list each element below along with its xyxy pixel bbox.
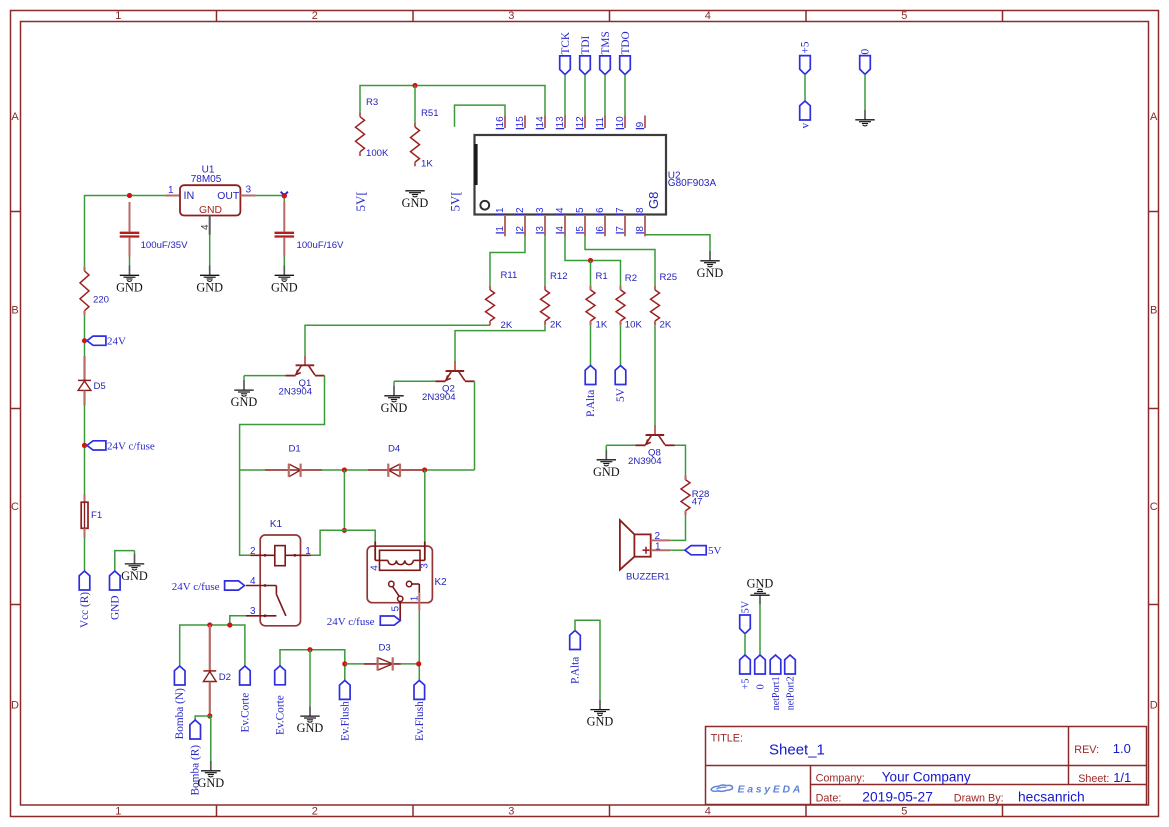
svg-text:netPort1: netPort1 [771, 676, 782, 710]
pin 8 of U2 (bottom) [635, 207, 646, 236]
junction dot with cross at U1 out [281, 192, 288, 199]
ground symbol floating at R51 [402, 191, 429, 210]
junction dot D2 top [207, 622, 212, 627]
svg-text:5: 5 [901, 10, 907, 22]
svg-text:1: 1 [115, 806, 121, 818]
svg-text:2N3904: 2N3904 [628, 456, 662, 467]
svg-text:8: 8 [635, 207, 646, 213]
pin 4 of U1 (gray) [200, 216, 211, 235]
wire pin5 to R25 [585, 236, 655, 286]
wire R28 to buzzer pin2 [670, 515, 685, 540]
pin 2 of U2 (bottom) [515, 207, 526, 236]
flag TDI [580, 35, 592, 74]
pin 1 of U2 (bottom) [495, 207, 506, 236]
svg-text:TCK: TCK [560, 31, 572, 54]
ground symbol netport (flipped) [747, 576, 774, 604]
svg-text:1: 1 [168, 185, 174, 196]
svg-text:GND: GND [697, 266, 724, 280]
wire R51 drop [414, 86, 416, 124]
svg-text:TMS: TMS [600, 31, 612, 54]
flag 5V netport [740, 600, 752, 633]
flag +5 bottom [740, 655, 752, 689]
svg-text:TITLE:: TITLE: [711, 733, 743, 745]
flag netPort2 [785, 655, 797, 710]
svg-text:GND: GND [271, 280, 298, 294]
svg-text:D1: D1 [289, 444, 301, 455]
svg-text:2K: 2K [550, 320, 562, 331]
svg-text:24V c/fuse: 24V c/fuse [172, 581, 220, 593]
svg-text:9: 9 [635, 121, 646, 127]
wire K1 pin2 drop [240, 470, 251, 555]
flag Ev.Flush 1 [339, 680, 351, 741]
svg-text:REV:: REV: [1074, 744, 1099, 756]
svg-text:7: 7 [615, 226, 626, 232]
ground symbol Q2 [381, 381, 408, 415]
svg-text:2K: 2K [501, 320, 513, 331]
title block [706, 727, 1147, 805]
svg-text:GND: GND [231, 395, 258, 409]
transistor Q8 2N3904 [628, 425, 675, 467]
junction dot D3 right [416, 661, 421, 666]
svg-text:+5: +5 [741, 679, 752, 690]
svg-text:GND: GND [116, 280, 143, 294]
svg-text:8: 8 [635, 226, 646, 232]
svg-text:GND: GND [381, 401, 408, 415]
svg-text:A: A [11, 111, 19, 123]
svg-text:A: A [1150, 111, 1158, 123]
flag P.Alta [585, 366, 597, 418]
svg-text:4: 4 [370, 565, 381, 571]
svg-text:F1: F1 [91, 510, 102, 521]
wire TDI to pin 12 [584, 75, 586, 116]
wire Ev bus [280, 650, 345, 681]
svg-text:netPort2: netPort2 [786, 676, 797, 710]
buzzer BUZZER1 [620, 520, 670, 582]
wire GND flag link [115, 551, 135, 571]
pin 10 of U2 (top) [615, 116, 626, 129]
pin 4 of U2 (bottom) [555, 207, 566, 236]
svg-text:3: 3 [508, 806, 514, 818]
svg-text:Your Company: Your Company [882, 770, 971, 785]
svg-text:1: 1 [495, 207, 506, 213]
wire pin3 to R12 [544, 236, 546, 286]
pin 14 of U2 (top) [535, 116, 546, 129]
svg-text:Ev.Flush: Ev.Flush [414, 701, 426, 741]
svg-text:1: 1 [115, 10, 121, 22]
svg-text:0: 0 [860, 49, 872, 55]
pin 6 of U2 (bottom) [595, 207, 606, 236]
svg-text:D3: D3 [379, 643, 391, 654]
svg-text:5V: 5V [741, 600, 752, 613]
pin 5 of U2 (bottom) [575, 207, 586, 236]
resistor R3 [356, 97, 390, 159]
svg-text:100K: 100K [366, 148, 389, 159]
svg-text:R3: R3 [366, 97, 378, 108]
voltage probe 5V at R3 [353, 191, 368, 211]
svg-text:GND: GND [402, 196, 429, 210]
flag 24V c/fuse at K1 pin4 [172, 581, 245, 593]
svg-text:Drawn By:: Drawn By: [954, 792, 1004, 804]
wire Q1 emitter to GND [244, 375, 285, 377]
svg-text:GND: GND [196, 280, 223, 294]
svg-text:0: 0 [756, 684, 767, 689]
svg-text:EasyEDA: EasyEDA [738, 784, 804, 796]
wire pin2 to R11 [490, 236, 525, 286]
ground symbol Q8 [593, 445, 620, 479]
wire R1 drop [590, 261, 592, 286]
svg-text:4: 4 [705, 10, 711, 22]
ground symbol under U1 [196, 266, 223, 295]
svg-text:2019-05-27: 2019-05-27 [862, 789, 933, 804]
voltage probe 5V at hook [448, 191, 463, 211]
flag 0 bottom [755, 655, 767, 689]
svg-text:Vcc (R): Vcc (R) [79, 592, 91, 628]
svg-text:C: C [1150, 501, 1158, 513]
svg-text:5V[: 5V[ [353, 191, 368, 211]
wire Ev GND drop [309, 650, 311, 707]
svg-text:10: 10 [615, 116, 626, 128]
svg-text:Company:: Company: [816, 773, 865, 785]
svg-text:GND: GND [109, 596, 121, 620]
pin 13 of U2 (top) [555, 116, 566, 129]
svg-text:4: 4 [555, 226, 566, 232]
transistor Q2 2N3904 [422, 361, 475, 403]
regulator U1 78M05 [166, 165, 256, 216]
wire TMS to pin 11 [604, 75, 606, 116]
svg-text:Ev.Corte: Ev.Corte [275, 695, 287, 735]
svg-text:6: 6 [595, 207, 606, 213]
wire TDO to pin 10 [624, 75, 626, 116]
svg-text:Date:: Date: [816, 792, 842, 804]
junction dot D2 bottom [207, 713, 212, 718]
wire Q8 collector to R28 [675, 445, 686, 475]
svg-text:2: 2 [312, 806, 318, 818]
svg-text:11: 11 [595, 117, 606, 128]
wire U1 output to C2 [256, 196, 284, 203]
wire hook pin16 [455, 105, 506, 127]
wire 0 column [864, 74, 866, 110]
diode D2 [203, 625, 231, 716]
junction dot K1 pin3 drop [227, 622, 232, 627]
svg-text:5V: 5V [615, 387, 627, 402]
svg-text:13: 13 [555, 116, 566, 128]
svg-text:GND: GND [197, 776, 224, 790]
flag Ev.Flush 2 [414, 680, 426, 741]
wire buzzer pin1 to 5V flag [670, 549, 685, 551]
svg-text:C: C [11, 501, 19, 513]
flag Ev.Corte 2 [275, 666, 287, 735]
diode D4 [368, 444, 423, 477]
svg-text:3: 3 [246, 185, 252, 196]
diode D1 [265, 444, 322, 477]
resistor R2 [616, 273, 642, 331]
capacitor C1 100uF/35V [120, 202, 188, 257]
svg-text:IN: IN [184, 190, 195, 202]
wire R25 to Q8 base [654, 325, 656, 425]
flag Bomba (N) [174, 666, 186, 739]
flag +5 (top right) [800, 41, 812, 74]
svg-text:BUZZER1: BUZZER1 [626, 572, 670, 583]
svg-text:D4: D4 [388, 444, 401, 455]
junction dot at C1 top [127, 193, 132, 198]
svg-text:R11: R11 [501, 270, 518, 281]
svg-text:220: 220 [93, 295, 109, 306]
svg-text:K2: K2 [435, 577, 448, 588]
wire Q8 emitter to GND [606, 444, 635, 446]
flag TDO [620, 31, 632, 74]
svg-text:hecsanrich: hecsanrich [1018, 789, 1085, 804]
wire K1 pin3 out [230, 616, 246, 625]
svg-text:5: 5 [575, 226, 586, 232]
wire P.Alta to GND [575, 620, 600, 700]
wire 220 to 24V flag [84, 315, 86, 356]
resistor 220 [80, 267, 109, 315]
svg-text:1: 1 [305, 546, 311, 557]
svg-text:K1: K1 [270, 519, 283, 530]
wire 0 to GND netport [759, 605, 761, 655]
capacitor C2 100uF/16V [275, 202, 345, 257]
flag TCK [560, 31, 572, 75]
resistor R11 [486, 270, 518, 331]
svg-text:1K: 1K [421, 159, 433, 170]
junction dot D-line mid [342, 467, 347, 472]
junction dot relay bus [342, 528, 347, 533]
junction dot R1 top [588, 258, 593, 263]
ground symbol 0 column [855, 110, 874, 126]
svg-text:TDI: TDI [580, 35, 592, 54]
svg-text:4: 4 [200, 224, 211, 230]
ground symbol left [121, 551, 148, 583]
svg-text:12: 12 [575, 116, 586, 128]
wire Q1 collector down [240, 376, 325, 470]
ground symbol Ev [297, 706, 324, 735]
flag 0 (top right) [860, 49, 872, 75]
fuse F1 [81, 495, 102, 539]
svg-text:14: 14 [535, 116, 546, 128]
svg-text:P.Alta: P.Alta [570, 657, 582, 684]
ground symbol Bomba [197, 761, 224, 790]
junction dot Ev GND [307, 647, 312, 652]
flag Vcc (R) [79, 571, 91, 628]
relay K1 [246, 519, 311, 626]
EasyEDA logo [711, 784, 803, 796]
svg-text:Ev.Flush: Ev.Flush [339, 701, 351, 741]
svg-text:TDO: TDO [620, 31, 632, 54]
wire 24V input rail top [85, 196, 167, 267]
svg-text:Ev.Corte: Ev.Corte [240, 693, 252, 733]
wire bottom bus Bomba [180, 625, 245, 666]
svg-text:10K: 10K [625, 320, 643, 331]
resistor R25 [651, 272, 678, 331]
svg-text:GND: GND [121, 569, 148, 583]
junction dot D-line right [422, 467, 427, 472]
svg-text:5: 5 [391, 606, 402, 612]
wire R12 to Q2 base [455, 325, 545, 361]
wire D4 to Q2 collector [423, 469, 475, 471]
svg-text:4: 4 [555, 207, 566, 213]
svg-text:GND: GND [587, 715, 614, 729]
wire U1 pin4 to GND [209, 235, 211, 266]
svg-text:GND: GND [593, 465, 620, 479]
svg-text:1: 1 [495, 226, 506, 232]
svg-text:16: 16 [495, 116, 506, 128]
svg-text:R51: R51 [421, 108, 439, 119]
svg-text:2N3904: 2N3904 [422, 392, 456, 403]
svg-text:GND: GND [199, 205, 222, 216]
wire top bus to chip pin 14 [360, 86, 545, 116]
wire D5 to F1 [84, 405, 86, 495]
svg-text:5V[: 5V[ [448, 191, 463, 211]
wire F1 to Vcc flag [84, 538, 86, 571]
svg-text:24V c/fuse: 24V c/fuse [107, 440, 155, 452]
svg-text:78M05: 78M05 [191, 174, 222, 185]
wire pin8 to GND [645, 235, 710, 251]
pin 15 of U2 (top) [515, 116, 526, 129]
svg-text:P.Alta: P.Alta [585, 390, 597, 417]
flag 5V at buzzer [685, 545, 722, 557]
flag 5V under R2 [615, 366, 627, 403]
svg-text:2N3904: 2N3904 [279, 386, 313, 397]
svg-text:Bomba (N): Bomba (N) [174, 688, 186, 739]
ground symbol P.Alta [587, 700, 614, 729]
flag P.Alta bottom [570, 631, 582, 685]
ground symbol under C2 [271, 266, 298, 295]
wire pin4 to R1/R2 [565, 236, 621, 286]
pin 16 of U2 (top) [495, 116, 506, 129]
wire D2 to GND [210, 716, 212, 761]
ground symbol pin8 [697, 251, 724, 280]
wire R2 to 5V flag [620, 325, 622, 365]
svg-text:B: B [11, 305, 18, 317]
pin 9 of U2 (top) [635, 116, 646, 129]
svg-text:3: 3 [535, 207, 546, 213]
svg-text:100uF/16V: 100uF/16V [297, 240, 345, 251]
svg-text:15: 15 [515, 116, 526, 128]
svg-text:4: 4 [250, 576, 256, 587]
svg-text:6: 6 [595, 226, 606, 232]
resistor R1 [586, 271, 608, 331]
relay K2 [367, 542, 447, 621]
svg-text:+5: +5 [800, 41, 812, 53]
wire K2 pin3 riser [424, 470, 426, 542]
svg-text:2: 2 [515, 207, 526, 213]
svg-text:Sheet:: Sheet: [1078, 773, 1109, 785]
node 24V flag [82, 336, 126, 348]
svg-text:1: 1 [655, 541, 661, 552]
node 24V c/fuse flag [82, 440, 155, 452]
svg-text:3: 3 [419, 563, 430, 569]
svg-text:7: 7 [615, 207, 626, 213]
wire relay bus [320, 530, 375, 554]
flag Ev.Corte 1 [240, 666, 252, 733]
svg-text:1K: 1K [596, 320, 608, 331]
wire between D1 and D4 [322, 469, 368, 471]
svg-text:4: 4 [705, 806, 711, 818]
flag Bomba (R) [190, 720, 202, 796]
pin 3 of U2 (bottom) [535, 207, 546, 236]
svg-text:OUT: OUT [217, 191, 240, 202]
wire mid drop to K relays [343, 470, 345, 530]
svg-text:3: 3 [535, 226, 546, 232]
wire +5 column [804, 74, 806, 101]
flag v [800, 101, 812, 129]
svg-text:24V: 24V [107, 336, 126, 348]
resistor R28 [681, 476, 709, 516]
ground symbol under C1 [116, 266, 143, 295]
svg-text:3: 3 [508, 10, 514, 22]
svg-text:D: D [11, 700, 19, 712]
wire K1 pin1 to bus [311, 554, 321, 557]
IC U2 G80F903A body [475, 135, 717, 215]
svg-text:Sheet_1: Sheet_1 [769, 742, 825, 759]
svg-text:v: v [800, 123, 812, 129]
flag GND (blue) [109, 571, 121, 620]
svg-text:R25: R25 [660, 272, 678, 283]
svg-text:GND: GND [747, 576, 774, 590]
svg-text:D: D [1150, 700, 1158, 712]
svg-text:G80F903A: G80F903A [668, 178, 717, 189]
diode D5 [78, 356, 106, 405]
wire R1 to P.Alta flag [590, 325, 592, 365]
svg-text:5: 5 [575, 207, 586, 213]
pin 11 of U2 (top) [595, 116, 606, 129]
svg-text:D2: D2 [219, 672, 231, 683]
wire TCK to pin 13 [564, 75, 566, 116]
svg-text:5: 5 [901, 806, 907, 818]
diode D3 [345, 643, 419, 671]
svg-text:47: 47 [692, 497, 703, 508]
pin 12 of U2 (top) [575, 116, 586, 129]
ground symbol Q1 [231, 376, 258, 410]
resistor R51 [411, 108, 439, 170]
wire 5V to +5 flag [744, 634, 746, 655]
svg-text:R2: R2 [625, 273, 637, 284]
junction dot D3 left [342, 661, 347, 666]
resistor R12 [541, 271, 568, 331]
svg-text:1: 1 [410, 595, 421, 601]
flag netPort1 [770, 655, 782, 710]
wire C1 to GND [129, 257, 131, 266]
svg-text:2K: 2K [660, 320, 672, 331]
svg-text:R1: R1 [596, 271, 608, 282]
wire D1-D4 horizontal left [240, 469, 265, 471]
svg-text:R12: R12 [550, 271, 568, 282]
wire R11 to Q1 base [305, 325, 490, 355]
pin 7 of U2 (bottom) [615, 207, 626, 236]
svg-text:1.0: 1.0 [1113, 741, 1131, 756]
wire Q2 collector down [474, 381, 476, 470]
svg-text:G8: G8 [646, 192, 661, 209]
junction dot R51 top [412, 83, 417, 88]
wire to Bomba (R) flag [195, 716, 210, 720]
svg-text:2: 2 [515, 226, 526, 232]
wire Q2 emitter to GND [394, 380, 435, 382]
svg-text:5V: 5V [708, 545, 722, 557]
svg-text:D5: D5 [94, 381, 106, 392]
flag 24V c/fuse at K2 pin5 [327, 616, 400, 628]
svg-text:2: 2 [250, 546, 256, 557]
svg-text:24V c/fuse: 24V c/fuse [327, 616, 375, 628]
svg-text:B: B [1150, 305, 1157, 317]
transistor Q1 2N3904 [279, 355, 325, 397]
svg-text:100uF/35V: 100uF/35V [141, 240, 189, 251]
svg-text:3: 3 [250, 606, 256, 617]
svg-text:GND: GND [297, 721, 324, 735]
svg-text:1/1: 1/1 [1113, 770, 1131, 785]
flag TMS [600, 31, 612, 74]
wire K2 pin1 down [418, 611, 420, 681]
wire C2 to GND [283, 257, 285, 266]
